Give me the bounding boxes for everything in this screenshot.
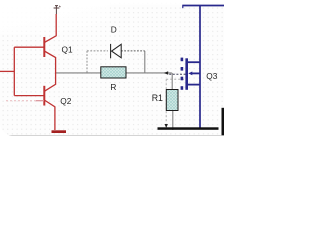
svg-text:R: R: [110, 82, 116, 92]
svg-text:Q2: Q2: [60, 96, 71, 106]
svg-text:Q1: Q1: [62, 44, 73, 54]
svg-text:Q3: Q3: [206, 71, 217, 81]
svg-text:D: D: [111, 25, 117, 35]
svg-text:R1: R1: [152, 93, 163, 103]
